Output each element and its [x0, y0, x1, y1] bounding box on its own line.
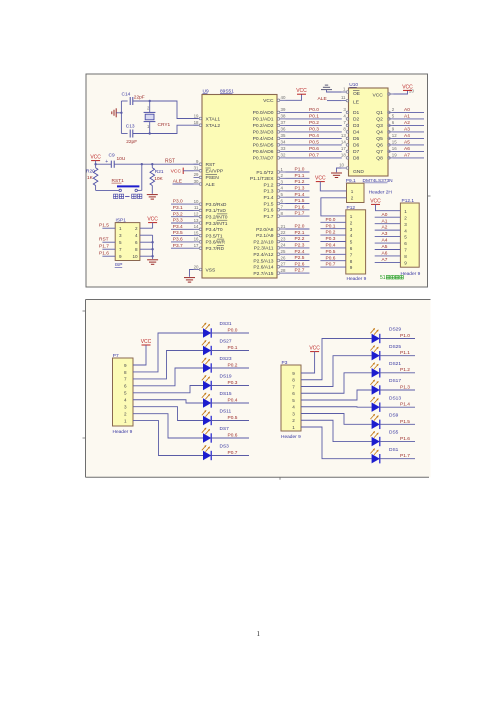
svg-text:31: 31	[194, 166, 199, 171]
schematic sheet 2 frame	[86, 300, 431, 478]
svg-text:D3: D3	[353, 123, 360, 129]
svg-text:7: 7	[119, 247, 122, 252]
svg-text:19: 19	[392, 153, 397, 158]
svg-text:C9: C9	[109, 153, 115, 159]
svg-text:1: 1	[119, 226, 122, 231]
svg-text:P0.1/AD1: P0.1/AD1	[253, 117, 274, 123]
svg-text:22pF: 22pF	[126, 139, 137, 145]
net label A0 out	[393, 111, 424, 113]
svg-text:8: 8	[124, 370, 127, 375]
svg-text:9: 9	[350, 265, 353, 270]
svg-text:P1.7: P1.7	[295, 211, 305, 217]
svg-text:P0.3: P0.3	[326, 236, 336, 242]
svg-text:P1.1: P1.1	[295, 173, 305, 179]
node VCC-R20	[94, 163, 96, 165]
svg-text:VCC: VCC	[372, 93, 383, 99]
svg-text:P1.5: P1.5	[400, 419, 410, 425]
svg-text:5: 5	[292, 398, 295, 403]
svg-text:DS27: DS27	[220, 339, 232, 345]
wire LED DS11 cathode	[211, 420, 249, 422]
node button-RST	[141, 163, 143, 165]
svg-text:Q6: Q6	[376, 143, 383, 149]
svg-text:14: 14	[194, 224, 199, 229]
LED DS25	[372, 351, 380, 360]
svg-text:30: 30	[194, 179, 199, 184]
LED DS31	[203, 328, 211, 337]
svg-text:P1.5: P1.5	[263, 201, 273, 207]
svg-text:DS1: DS1	[389, 447, 399, 453]
wire P3 pin2 to LED7	[301, 420, 372, 441]
wire P3 pin1 to LED8	[301, 427, 372, 459]
svg-text:DS15: DS15	[220, 391, 232, 397]
svg-text:4: 4	[135, 233, 138, 238]
ground OE	[327, 90, 342, 92]
wire ISP pin1	[102, 227, 115, 229]
wire LED DS17 cathode	[380, 389, 415, 391]
wire P12.1 pin1 VCC	[376, 204, 401, 210]
svg-text:P1.7: P1.7	[99, 244, 109, 250]
pin 27 P2.6/A14	[280, 266, 286, 268]
wire P9.1 pin1 VCC	[320, 182, 346, 191]
svg-text:7: 7	[124, 377, 127, 382]
svg-text:VCC: VCC	[141, 339, 152, 345]
svg-text:VCC: VCC	[171, 169, 182, 175]
svg-text:7: 7	[350, 252, 353, 257]
svg-text:A6: A6	[404, 146, 410, 152]
pin Q2	[389, 118, 393, 120]
pin 9 RST	[194, 163, 200, 165]
svg-text:3: 3	[350, 227, 353, 232]
svg-text:P1.1/T2EX: P1.1/T2EX	[250, 176, 274, 182]
LED DS1	[372, 454, 380, 463]
wire button left	[96, 189, 119, 191]
svg-text:DS31: DS31	[220, 321, 232, 327]
svg-text:DS17: DS17	[389, 378, 401, 384]
wire LED DS31 cathode	[211, 332, 249, 334]
svg-text:15: 15	[392, 140, 397, 145]
svg-text:A2: A2	[404, 120, 410, 126]
wire LED DS25 cathode	[380, 355, 415, 357]
svg-text:P1.1: P1.1	[400, 350, 410, 356]
svg-text:7: 7	[404, 248, 407, 253]
svg-text:10: 10	[339, 162, 344, 167]
pin 11 P3.1/TxD	[194, 209, 200, 211]
svg-text:A5: A5	[404, 140, 410, 146]
svg-text:P2.2: P2.2	[295, 236, 305, 242]
svg-text:RST: RST	[165, 159, 175, 165]
svg-text:3: 3	[292, 411, 295, 416]
svg-text:3: 3	[124, 405, 127, 410]
wire ISP pin5	[102, 241, 115, 243]
svg-text:DS29: DS29	[389, 327, 401, 333]
svg-text:P0.7: P0.7	[309, 153, 319, 159]
wire to XTAL1 pin19	[150, 101, 198, 119]
svg-text:D1: D1	[353, 110, 360, 116]
pin 36 P0.3/AD3	[280, 131, 286, 133]
svg-text:P3.6: P3.6	[173, 237, 183, 243]
net labels P0 into P12	[320, 221, 345, 223]
svg-text:A4: A4	[382, 238, 388, 244]
pin 21 P2.0/A8	[280, 228, 286, 230]
svg-text:P1.5: P1.5	[295, 198, 305, 204]
svg-text:D2: D2	[353, 117, 360, 123]
svg-text:VCC: VCC	[147, 217, 158, 223]
wire P7 pin3 to LED6	[133, 407, 203, 421]
pin D1	[346, 111, 349, 114]
wire P7 pin7 to LED2	[133, 351, 203, 379]
svg-text:DS23: DS23	[220, 356, 232, 362]
svg-text:24: 24	[281, 243, 286, 248]
wire P3 pin9 VCC	[301, 352, 315, 373]
svg-text:Header 9: Header 9	[113, 429, 133, 435]
svg-text:P0.2/AD2: P0.2/AD2	[253, 123, 274, 129]
svg-text:DS21: DS21	[389, 361, 401, 367]
svg-text:P2.6/A14: P2.6/A14	[253, 265, 273, 271]
net label A6 out	[393, 150, 424, 152]
pin 25 P2.4/A12	[280, 253, 286, 255]
node XTAL1 net	[149, 100, 151, 102]
svg-text:2: 2	[292, 418, 295, 423]
svg-text:12: 12	[392, 133, 397, 138]
net labels P1 bus	[286, 171, 310, 173]
svg-text:P1.0: P1.0	[295, 167, 305, 173]
svg-text:P1.6: P1.6	[263, 208, 273, 214]
svg-text:P2.0/A8: P2.0/A8	[256, 227, 274, 233]
LED DS3	[203, 451, 211, 460]
pin 5 P1.4	[280, 196, 286, 198]
svg-text:P0.4: P0.4	[228, 397, 238, 403]
svg-text:1: 1	[257, 630, 261, 638]
wire LED DS19 cathode	[211, 385, 249, 387]
svg-text:29: 29	[194, 172, 199, 177]
svg-text:9: 9	[124, 363, 127, 368]
svg-text:10: 10	[194, 199, 199, 204]
capacitor C13	[130, 130, 133, 138]
svg-text:2: 2	[404, 215, 407, 220]
svg-text:P0.0: P0.0	[309, 107, 319, 113]
pin 20 VSS	[194, 269, 200, 271]
svg-text:R21: R21	[155, 169, 164, 175]
svg-text:28: 28	[281, 268, 286, 273]
schematic sheet 1 frame	[86, 74, 428, 287]
svg-text:33: 33	[281, 146, 286, 151]
svg-text:3: 3	[404, 222, 407, 227]
label button chinese	[114, 194, 118, 198]
wire LED DS29 cathode	[380, 338, 415, 340]
svg-text:32: 32	[281, 153, 286, 158]
svg-text:P0.1: P0.1	[309, 114, 319, 120]
svg-text:Header 9: Header 9	[281, 434, 301, 440]
svg-text:6: 6	[292, 391, 295, 396]
svg-text:13: 13	[194, 218, 199, 223]
svg-text:23: 23	[281, 236, 286, 241]
svg-text:1K: 1K	[87, 175, 94, 181]
svg-text:5: 5	[119, 240, 122, 245]
pin 24 P2.3/A11	[280, 247, 286, 249]
resistor R20	[93, 168, 98, 186]
node R21-RST	[151, 163, 153, 165]
svg-text:10: 10	[132, 254, 138, 259]
svg-text:P1.7: P1.7	[263, 214, 273, 220]
svg-text:DS7: DS7	[220, 426, 230, 432]
svg-text:P1.2: P1.2	[295, 179, 305, 185]
pin 22 P2.1/A9	[280, 234, 286, 236]
pin 1 P1.0/T2	[280, 171, 286, 173]
svg-text:P1.6: P1.6	[400, 436, 410, 442]
pin 32 P0.7/AD7	[280, 157, 286, 159]
svg-text:P1.7: P1.7	[400, 453, 410, 459]
net labels A into P12.1	[375, 216, 401, 218]
svg-text:5: 5	[404, 235, 407, 240]
svg-text:P1.6: P1.6	[99, 251, 109, 257]
svg-text:14: 14	[341, 140, 346, 145]
svg-text:P2.7/A15: P2.7/A15	[253, 271, 273, 277]
svg-text:D4: D4	[353, 130, 360, 136]
svg-text:R20: R20	[86, 169, 95, 175]
node ISP gnd pin8	[151, 248, 153, 250]
svg-text:1: 1	[350, 214, 353, 219]
svg-text:P3.7/RD: P3.7/RD	[206, 246, 225, 252]
svg-text:P1.4: P1.4	[295, 192, 305, 198]
svg-text:VCC: VCC	[370, 198, 381, 204]
wire LED DS23 cathode	[211, 367, 249, 369]
svg-text:6: 6	[404, 241, 407, 246]
svg-text:16: 16	[194, 237, 199, 242]
svg-text:P3.2/INT0: P3.2/INT0	[206, 215, 228, 221]
svg-text:11: 11	[341, 95, 346, 100]
resistor R21	[150, 168, 155, 186]
svg-text:P1.2: P1.2	[263, 182, 273, 188]
svg-text:DS13: DS13	[389, 395, 401, 401]
svg-text:P0.5/AD5: P0.5/AD5	[253, 143, 274, 149]
svg-text:VCC: VCC	[315, 176, 326, 182]
pin D4	[346, 131, 349, 134]
svg-text:5: 5	[124, 391, 127, 396]
svg-text:Q5: Q5	[376, 136, 383, 142]
svg-text:2: 2	[124, 411, 127, 416]
svg-text:18: 18	[194, 120, 199, 125]
svg-text:P3.3: P3.3	[173, 218, 183, 224]
pin 19 XTAL1	[194, 118, 200, 120]
svg-text:Q2: Q2	[376, 117, 383, 123]
svg-text:2: 2	[135, 226, 138, 231]
svg-text:P2.6: P2.6	[295, 261, 305, 267]
wire crystal left rail	[120, 101, 122, 134]
wire P3 pin7 to LED2	[301, 356, 372, 387]
wire RST rail	[96, 163, 112, 165]
pin D3	[346, 124, 349, 127]
svg-text:A7: A7	[382, 257, 388, 263]
wire LED DS7 cathode	[211, 437, 249, 439]
svg-text:P2.7: P2.7	[295, 268, 305, 274]
ground ISP	[147, 260, 158, 265]
pin 34 P0.5/AD5	[280, 144, 286, 146]
svg-text:P1.0: P1.0	[400, 333, 410, 339]
svg-text:21: 21	[281, 224, 286, 229]
pin 10 P3.0/RxD	[194, 203, 200, 205]
wire ISP pin7	[102, 248, 115, 250]
svg-text:D8: D8	[353, 156, 360, 162]
pin D8	[346, 157, 349, 160]
svg-text:2: 2	[351, 196, 354, 201]
LED DS13	[372, 402, 380, 411]
wire P7 pin2 to LED7	[133, 414, 203, 438]
net label A5 out	[393, 144, 424, 146]
svg-text:P1.4: P1.4	[400, 402, 410, 408]
svg-text:P0.0: P0.0	[326, 217, 336, 223]
pin 39 P0.0/AD0	[280, 111, 286, 113]
wire LED DS3 cathode	[211, 455, 249, 457]
pin 40 VCC	[280, 99, 286, 101]
svg-text:51: 51	[380, 275, 386, 281]
net label A1 out	[393, 118, 424, 120]
svg-text:XTAL2: XTAL2	[206, 123, 221, 129]
LED DS21	[372, 368, 380, 377]
svg-text:ALE: ALE	[173, 178, 183, 184]
svg-text:1: 1	[351, 189, 354, 194]
svg-text:P3.0/RxD: P3.0/RxD	[206, 202, 227, 208]
svg-text:DS5: DS5	[389, 430, 399, 436]
svg-text:P2.1: P2.1	[295, 230, 305, 236]
svg-text:D7: D7	[353, 149, 360, 155]
wire P7 pin8 to LED1	[133, 333, 203, 372]
svg-text:2: 2	[350, 220, 353, 225]
svg-text:P0.5: P0.5	[326, 249, 336, 255]
svg-text:A3: A3	[404, 127, 410, 133]
svg-text:VSS: VSS	[206, 267, 217, 273]
svg-text:4: 4	[292, 405, 295, 410]
svg-text:P1.0/T2: P1.0/T2	[256, 170, 273, 176]
svg-text:P2.1/A9: P2.1/A9	[256, 233, 274, 239]
svg-text:P0.0/AD0: P0.0/AD0	[253, 110, 274, 116]
svg-text:P0.6: P0.6	[326, 255, 336, 261]
svg-text:17: 17	[341, 146, 346, 151]
svg-text:D6: D6	[353, 143, 360, 149]
svg-text:P2.5: P2.5	[295, 255, 305, 261]
svg-text:EA/VPP: EA/VPP	[206, 169, 224, 175]
svg-text:9: 9	[404, 261, 407, 266]
wire P0 bus	[286, 111, 342, 113]
svg-text:P0.7: P0.7	[326, 262, 336, 268]
svg-text:DS9: DS9	[389, 413, 399, 419]
LED DS11	[203, 416, 211, 425]
svg-text:P2.3: P2.3	[295, 243, 305, 249]
pin Q1	[389, 111, 393, 113]
svg-text:VCC: VCC	[296, 88, 307, 94]
wire P3 pin8 to LED1	[301, 339, 372, 380]
svg-text:A6: A6	[382, 251, 388, 257]
svg-text:P0.3/AD3: P0.3/AD3	[253, 130, 274, 136]
svg-text:A0: A0	[382, 212, 388, 218]
pin 23 P2.2/A10	[280, 241, 286, 243]
svg-text:P0.2: P0.2	[228, 362, 238, 368]
svg-text:P3.6/WR: P3.6/WR	[206, 240, 226, 246]
svg-text:39: 39	[281, 107, 286, 112]
svg-text:17: 17	[194, 243, 199, 248]
svg-text:LE: LE	[353, 100, 360, 106]
svg-text:20: 20	[194, 264, 199, 269]
svg-text:16: 16	[392, 146, 397, 151]
LED DS27	[203, 346, 211, 355]
pin 20 VCC latch	[389, 93, 394, 95]
LED DS15	[203, 398, 211, 407]
pin 1 OE	[342, 91, 346, 93]
pin 15 P3.5/T1	[194, 235, 200, 237]
svg-text:A2: A2	[382, 225, 388, 231]
node ISP gnd pin10	[151, 255, 153, 257]
net labels P3 bus	[171, 203, 194, 205]
pin 6 P1.5	[280, 203, 286, 205]
svg-text:10K: 10K	[154, 176, 163, 182]
svg-text:1: 1	[404, 209, 407, 214]
svg-text:P1.4: P1.4	[263, 195, 273, 201]
svg-text:ALE: ALE	[318, 96, 328, 102]
svg-text:P0.0: P0.0	[228, 327, 238, 333]
pin D5	[346, 137, 349, 140]
svg-text:XTAL1: XTAL1	[206, 116, 221, 122]
svg-text:10U: 10U	[117, 156, 126, 162]
svg-text:P0.5: P0.5	[228, 415, 238, 421]
svg-text:P2.5/A13: P2.5/A13	[253, 258, 273, 264]
svg-text:P3.2: P3.2	[173, 211, 183, 217]
svg-text:P0.3: P0.3	[309, 127, 319, 133]
wire P3 pin4 to LED5	[301, 406, 372, 408]
svg-text:6: 6	[124, 384, 127, 389]
svg-text:P0.2: P0.2	[309, 120, 319, 126]
svg-text:P2.4: P2.4	[295, 249, 305, 255]
pin 11 LE	[342, 100, 346, 102]
svg-text:4: 4	[124, 398, 127, 403]
pin D6	[346, 144, 349, 147]
pin Q6	[389, 144, 393, 146]
svg-text:VCC: VCC	[309, 346, 320, 352]
pin 31 EA/VPP	[194, 170, 200, 172]
crystal CRY1	[144, 111, 156, 113]
svg-text:P3.4: P3.4	[173, 224, 183, 230]
svg-text:1: 1	[292, 425, 295, 430]
svg-text:DS11: DS11	[220, 409, 232, 415]
pin 10 GND latch	[342, 167, 346, 169]
svg-text:Q3: Q3	[376, 123, 383, 129]
pin 8 P1.7	[280, 215, 286, 217]
svg-text:P0.1: P0.1	[326, 223, 336, 229]
svg-text:P3.5: P3.5	[173, 230, 183, 236]
svg-text:1: 1	[124, 418, 127, 423]
svg-text:DS25: DS25	[389, 344, 401, 350]
svg-text:A7: A7	[404, 153, 410, 159]
net label A2 out	[393, 124, 424, 126]
LED DS19	[203, 381, 211, 390]
pin 30 ALE	[194, 183, 200, 185]
pin 29 PSEN	[194, 176, 200, 178]
svg-text:13: 13	[341, 133, 346, 138]
capacitor C14	[130, 97, 133, 105]
svg-text:27: 27	[281, 262, 286, 267]
svg-text:A1: A1	[404, 114, 410, 120]
svg-text:P0.4: P0.4	[326, 243, 336, 249]
svg-text:8: 8	[292, 378, 295, 383]
wire to XTAL2 pin18	[150, 125, 198, 133]
svg-text:7: 7	[292, 384, 295, 389]
svg-text:P1.3: P1.3	[400, 384, 410, 390]
ground VSS	[190, 270, 194, 277]
LED DS9	[372, 420, 380, 429]
svg-text:P3.4/T0: P3.4/T0	[206, 227, 223, 233]
svg-text:CRY1: CRY1	[158, 122, 171, 128]
svg-text:C13: C13	[126, 124, 135, 130]
svg-text:4: 4	[404, 228, 407, 233]
svg-text:36: 36	[281, 127, 286, 132]
